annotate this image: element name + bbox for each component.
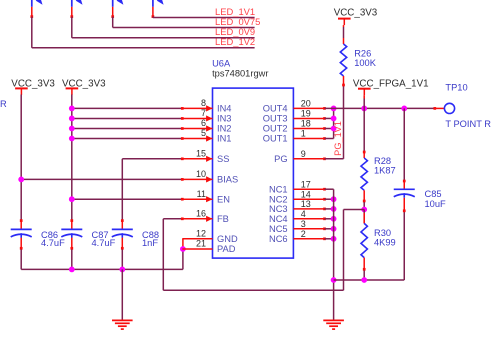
wire IN3 net — [72, 117, 184, 120]
svg-text:20: 20 — [301, 99, 311, 109]
svg-text:VCC_3V3: VCC_3V3 — [62, 78, 106, 89]
pin name IN2 — [217, 124, 231, 134]
wire ground rail — [21, 268, 183, 270]
svg-text:4.7uF: 4.7uF — [41, 238, 65, 248]
wire IN1 net — [72, 137, 184, 140]
value C85 — [425, 199, 447, 209]
pin 17 NC1 — [293, 188, 325, 191]
pin name IN4 — [217, 104, 231, 114]
power symbol VCC_3V3 (top right) — [334, 8, 378, 26]
net label LED_1V2 — [215, 36, 255, 47]
svg-text:10: 10 — [196, 169, 206, 179]
svg-text:PAD: PAD — [217, 244, 236, 254]
pin number 21 — [196, 239, 206, 249]
pin name GND — [217, 234, 238, 244]
pin name OUT2 — [263, 124, 288, 134]
wire OUT3 stub — [325, 117, 334, 119]
svg-text:U6A: U6A — [212, 58, 231, 68]
junction NC6 — [331, 236, 337, 242]
svg-text:2: 2 — [301, 229, 306, 239]
resistor R28 — [361, 151, 367, 210]
resistor R26 — [340, 38, 346, 86]
svg-text:NC4: NC4 — [269, 214, 288, 224]
wire FB tap — [163, 210, 364, 291]
wire FB net — [163, 217, 183, 290]
svg-text:21: 21 — [196, 239, 206, 249]
svg-text:14: 14 — [301, 189, 311, 199]
label C87 — [92, 230, 109, 240]
pin 16 FB — [182, 216, 212, 222]
svg-text:C85: C85 — [425, 189, 442, 199]
wire NC1 stub — [325, 188, 334, 190]
label C85 — [425, 189, 442, 199]
wire NC2 stub — [325, 198, 334, 200]
pin name FB — [217, 214, 229, 224]
svg-text:BIAS: BIAS — [217, 175, 238, 185]
pin 8 IN4 — [182, 105, 212, 111]
wire gnd stub left — [121, 269, 123, 320]
pin number 3 — [301, 219, 306, 229]
capacitor C88 — [112, 219, 133, 269]
svg-text:IN1: IN1 — [217, 134, 231, 144]
wire NC4 stub — [325, 218, 334, 220]
net label LED_0V75 — [215, 16, 260, 27]
pin name NC6 — [269, 234, 288, 244]
svg-text:R30: R30 — [374, 228, 391, 238]
pin 3 NC5 — [293, 227, 325, 230]
wire NC join vertical — [333, 189, 335, 320]
svg-text:NC6: NC6 — [269, 234, 288, 244]
value tps74801rgwr — [212, 69, 268, 79]
svg-text:VCC_3V3: VCC_3V3 — [334, 8, 378, 19]
junction C87 gnd — [69, 267, 75, 273]
junction NC5 — [331, 226, 337, 232]
pin 4 NC4 — [293, 217, 325, 220]
svg-text:100K: 100K — [354, 58, 377, 68]
junction NC2 — [331, 196, 337, 202]
svg-text:4.7uF: 4.7uF — [92, 238, 116, 248]
svg-text:IN4: IN4 — [217, 104, 231, 114]
label R28 — [374, 156, 391, 166]
svg-text:7: 7 — [201, 108, 206, 118]
wire LED_0V9 — [72, 37, 255, 39]
ground (right) — [323, 320, 344, 329]
value R28 — [374, 166, 396, 176]
svg-text:10uF: 10uF — [425, 199, 447, 209]
wire VCC to R26 — [343, 25, 345, 38]
wire NC3 stub — [325, 208, 334, 210]
junction R30 bottom — [361, 277, 367, 283]
svg-text:13: 13 — [301, 199, 311, 209]
pin 15 SS — [182, 156, 212, 162]
port arrow LED_0V9 — [70, 0, 82, 38]
pin 2 NC6 — [293, 237, 325, 240]
junction NC rail A — [331, 277, 337, 283]
svg-text:R: R — [0, 99, 7, 109]
capacitor C86 — [11, 219, 32, 269]
wire OUT1 stub — [325, 138, 334, 140]
svg-text:6: 6 — [201, 118, 206, 128]
pin number 7 — [201, 108, 206, 118]
junction NC4 — [331, 216, 337, 222]
wire OUT2 stub — [325, 128, 334, 130]
pin number 17 — [301, 179, 311, 189]
pin name OUT1 — [263, 134, 288, 144]
wire PG net — [325, 86, 344, 159]
pin number 5 — [201, 128, 206, 138]
pin name PG — [274, 154, 287, 164]
wire to C85 — [403, 108, 405, 180]
svg-text:OUT3: OUT3 — [263, 114, 288, 124]
junction NC3 — [331, 206, 337, 212]
label R30 — [374, 228, 391, 238]
port arrow LED_0V75 — [111, 0, 123, 27]
svg-text:NC1: NC1 — [269, 184, 288, 194]
svg-text:LED_1V2: LED_1V2 — [215, 36, 255, 47]
power symbol VCC_3V3 (left) — [11, 78, 55, 95]
junction OUT4 — [331, 106, 337, 112]
svg-text:VCC_FPGA_1V1: VCC_FPGA_1V1 — [353, 79, 429, 90]
pin name NC3 — [269, 204, 288, 214]
pin name NC2 — [269, 194, 288, 204]
power symbol VCC_3V3 (mid) — [62, 78, 106, 95]
wire BIAS net — [21, 178, 183, 181]
junction OUT3 — [331, 116, 337, 122]
svg-text:FB: FB — [217, 214, 229, 224]
wire to TP10 — [433, 107, 444, 110]
pin 13 NC3 — [293, 208, 325, 211]
value R26 — [354, 58, 377, 68]
value R30 — [374, 237, 396, 247]
junction EN — [69, 196, 75, 202]
port arrow LED_1V2 — [30, 0, 42, 48]
svg-text:17: 17 — [301, 179, 311, 189]
wire VCC_3V3 left rail — [20, 95, 22, 220]
value C88 — [142, 238, 158, 248]
wire NC5 stub — [325, 228, 334, 230]
pin number 13 — [301, 199, 311, 209]
pin number 4 — [301, 209, 306, 219]
wire to R28 — [363, 108, 365, 151]
wire VCC_FPGA_1V1 — [325, 107, 435, 109]
svg-text:R26: R26 — [354, 48, 371, 58]
port arrow LED_1V1 — [152, 0, 164, 18]
pin 20 OUT4 — [293, 107, 325, 110]
junction OUT2 — [331, 126, 337, 132]
junction R28-R30 — [361, 207, 367, 213]
pin 5 IN1 — [182, 135, 212, 141]
pin 7 IN3 — [182, 115, 212, 121]
svg-text:12: 12 — [196, 228, 206, 238]
svg-text:PG: PG — [274, 154, 287, 164]
pin number 16 — [196, 208, 206, 218]
svg-text:NC2: NC2 — [269, 194, 288, 204]
wire NC6 stub — [325, 238, 334, 240]
power symbol VCC_FPGA_1V1 — [353, 79, 429, 109]
junction IN4 — [69, 106, 75, 112]
pin name NC4 — [269, 214, 288, 224]
pin number 9 — [301, 149, 306, 159]
pin name IN1 — [217, 134, 231, 144]
label T POINT R — [445, 119, 491, 129]
pin 6 IN2 — [182, 125, 212, 131]
svg-text:4K99: 4K99 — [374, 237, 396, 247]
ground (left) — [112, 320, 133, 329]
junction BIAS — [18, 177, 24, 183]
capacitor C87 — [61, 219, 82, 269]
pin 1 OUT1 — [293, 137, 325, 140]
pin number 1 — [301, 129, 306, 139]
junction R28 top — [361, 106, 367, 112]
pin number 18 — [301, 119, 311, 129]
pin number 10 — [196, 169, 206, 179]
junction C88 gnd — [119, 267, 125, 273]
svg-text:8: 8 — [201, 98, 206, 108]
junction C85 top — [401, 106, 407, 112]
pin number 6 — [201, 118, 206, 128]
svg-text:5: 5 — [201, 128, 206, 138]
wire LED_0V75 — [113, 27, 255, 29]
pin name SS — [217, 154, 229, 164]
label R26 — [354, 48, 371, 58]
junction PAD — [180, 246, 186, 252]
pin number 19 — [301, 109, 311, 119]
svg-text:1: 1 — [301, 129, 306, 139]
junction IN3 — [69, 116, 75, 122]
svg-text:9: 9 — [301, 149, 306, 159]
pin number 2 — [301, 229, 306, 239]
pin 10 BIAS — [182, 176, 212, 182]
net label R (clipped) — [0, 99, 7, 109]
svg-text:4: 4 — [301, 209, 306, 219]
pin name IN3 — [217, 114, 231, 124]
svg-text:PG_1V1: PG_1V1 — [333, 121, 343, 156]
pin 14 NC2 — [293, 198, 325, 201]
svg-text:15: 15 — [196, 148, 206, 158]
wire LED_1V1 — [153, 17, 255, 19]
label C86 — [41, 230, 58, 240]
wire OUT join vertical — [333, 108, 335, 138]
pin name NC1 — [269, 184, 288, 194]
svg-text:R28: R28 — [374, 156, 391, 166]
wire GND-PAD link — [182, 239, 184, 270]
svg-text:IN3: IN3 — [217, 114, 231, 124]
net label LED_1V1 — [215, 6, 255, 17]
svg-text:3: 3 — [301, 219, 306, 229]
pin number 12 — [196, 228, 206, 238]
svg-text:NC5: NC5 — [269, 224, 288, 234]
svg-text:VCC_3V3: VCC_3V3 — [11, 78, 55, 89]
svg-text:SS: SS — [217, 154, 229, 164]
wire SS net — [122, 157, 183, 219]
label TP10 — [445, 83, 467, 93]
pin 11 EN — [182, 196, 212, 202]
test point TP10 — [444, 103, 454, 113]
wire EN net — [72, 198, 184, 201]
resistor R30 — [361, 210, 367, 281]
pin name NC5 — [269, 224, 288, 234]
svg-text:16: 16 — [196, 208, 206, 218]
pin number 14 — [301, 189, 311, 199]
wire rail A — [334, 212, 405, 280]
pin name OUT4 — [263, 104, 288, 114]
pin name BIAS — [217, 175, 238, 185]
wire VCC_3V3 mid rail — [71, 95, 73, 220]
pin 12 GND — [182, 238, 212, 240]
pin name PAD — [217, 244, 236, 254]
svg-text:EN: EN — [217, 194, 230, 204]
svg-text:19: 19 — [301, 109, 311, 119]
pin number 11 — [197, 189, 206, 199]
pin 19 OUT3 — [293, 117, 325, 120]
pin 18 OUT2 — [293, 127, 325, 130]
svg-text:NC3: NC3 — [269, 204, 288, 214]
pin name EN — [217, 194, 230, 204]
svg-text:GND: GND — [217, 234, 238, 244]
pin number 15 — [196, 148, 206, 158]
svg-text:OUT2: OUT2 — [263, 124, 288, 134]
value C87 — [92, 238, 116, 248]
wire IN2 net — [72, 127, 184, 130]
label C88 — [142, 230, 159, 240]
svg-text:1nF: 1nF — [142, 238, 158, 248]
svg-text:1K87: 1K87 — [374, 166, 396, 176]
svg-text:18: 18 — [301, 119, 311, 129]
pin 21 PAD — [182, 248, 212, 250]
wire IN4 net — [72, 107, 184, 110]
svg-text:OUT4: OUT4 — [263, 104, 288, 114]
net label PG_1V1 — [333, 121, 343, 156]
label U6A — [212, 58, 231, 68]
pin name OUT3 — [263, 114, 288, 124]
junction IN1 — [69, 136, 75, 142]
svg-text:OUT1: OUT1 — [263, 134, 288, 144]
wire LED_1V2 — [32, 47, 255, 49]
net label LED_0V9 — [215, 26, 255, 37]
pin number 8 — [201, 98, 206, 108]
svg-text:TP10: TP10 — [445, 83, 467, 93]
pin number 20 — [301, 99, 311, 109]
svg-text:11: 11 — [197, 189, 206, 199]
junction IN2 — [69, 126, 75, 132]
svg-text:tps74801rgwr: tps74801rgwr — [212, 69, 268, 79]
capacitor C85 — [394, 180, 415, 213]
svg-text:IN2: IN2 — [217, 124, 231, 134]
pin 9 PG — [293, 157, 325, 160]
op-amp U6A box — [213, 88, 294, 258]
value C86 — [41, 238, 65, 248]
svg-text:T POINT R: T POINT R — [445, 119, 491, 129]
